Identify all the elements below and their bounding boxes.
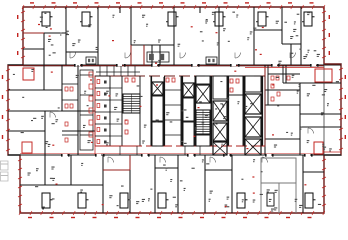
shaft column small dividers — [110, 88, 181, 136]
stair flight east — [196, 110, 210, 134]
elevator shaft E2 — [183, 83, 194, 97]
column symbols bottom band — [42, 193, 50, 208]
elevator shaft E3 — [213, 101, 227, 121]
column symbols top band — [42, 12, 50, 26]
dimension ticks top edge — [22, 5, 325, 9]
toilet partitions west block — [62, 84, 78, 135]
core corridor red walls — [95, 76, 265, 155]
dimension ticks left edge — [6, 11, 25, 206]
mid-lower band wall — [8, 154, 341, 156]
top band partition walls — [23, 7, 301, 65]
elevator shaft E7 — [245, 117, 261, 137]
bottom band partition walls — [20, 155, 324, 213]
wc fixtures right of core — [271, 76, 290, 101]
red accent corridor right — [245, 67, 324, 83]
elevator shaft E8 — [245, 139, 261, 155]
elevator shaft E6 — [245, 94, 261, 114]
room label specks — [13, 12, 339, 212]
duct boxes left of core — [80, 70, 93, 150]
mid-upper band wall — [8, 64, 341, 66]
grey room bottom-right — [261, 158, 296, 183]
red room lower-right — [314, 142, 323, 154]
shaft wall poche strips — [151, 76, 264, 146]
core outline — [95, 76, 265, 146]
core internal partition walls — [110, 76, 262, 146]
elevator shaft E4 — [213, 123, 227, 141]
red room upper-right — [315, 69, 332, 82]
red wall accents top band — [23, 33, 144, 65]
door swing arcs — [50, 53, 314, 163]
wc block right of core — [265, 65, 300, 105]
door jamb marks — [61, 64, 319, 157]
red room mid-left — [22, 142, 32, 153]
facade wall right strip — [323, 64, 325, 155]
red detail specks — [38, 24, 306, 207]
stair flight west — [123, 94, 140, 113]
fixture cluster top band — [86, 52, 217, 64]
corridor partitions above core — [96, 66, 200, 155]
core small rooms red fixtures — [125, 78, 239, 134]
middle-left room walls — [8, 65, 95, 155]
sink fixtures left corridor — [89, 72, 93, 137]
elevator shaft E5 — [213, 142, 227, 155]
empty shaft boxes — [152, 96, 163, 121]
elevator shaft E1 — [152, 82, 163, 95]
exterior entrance blocks — [1, 161, 9, 170]
red wall accent lower-right — [323, 151, 341, 153]
door openings core walls — [142, 76, 254, 146]
elevator shaft E0 — [196, 85, 210, 103]
dimension ticks right edge — [322, 11, 343, 206]
door openings band walls — [62, 65, 316, 155]
red accent bottom band — [103, 155, 130, 170]
middle-right room walls — [265, 65, 341, 155]
toilet fixtures west block — [65, 87, 73, 142]
dimension ticks bottom edge — [19, 211, 325, 215]
toilet stack rooms — [95, 76, 110, 144]
red room top-left — [23, 68, 34, 80]
